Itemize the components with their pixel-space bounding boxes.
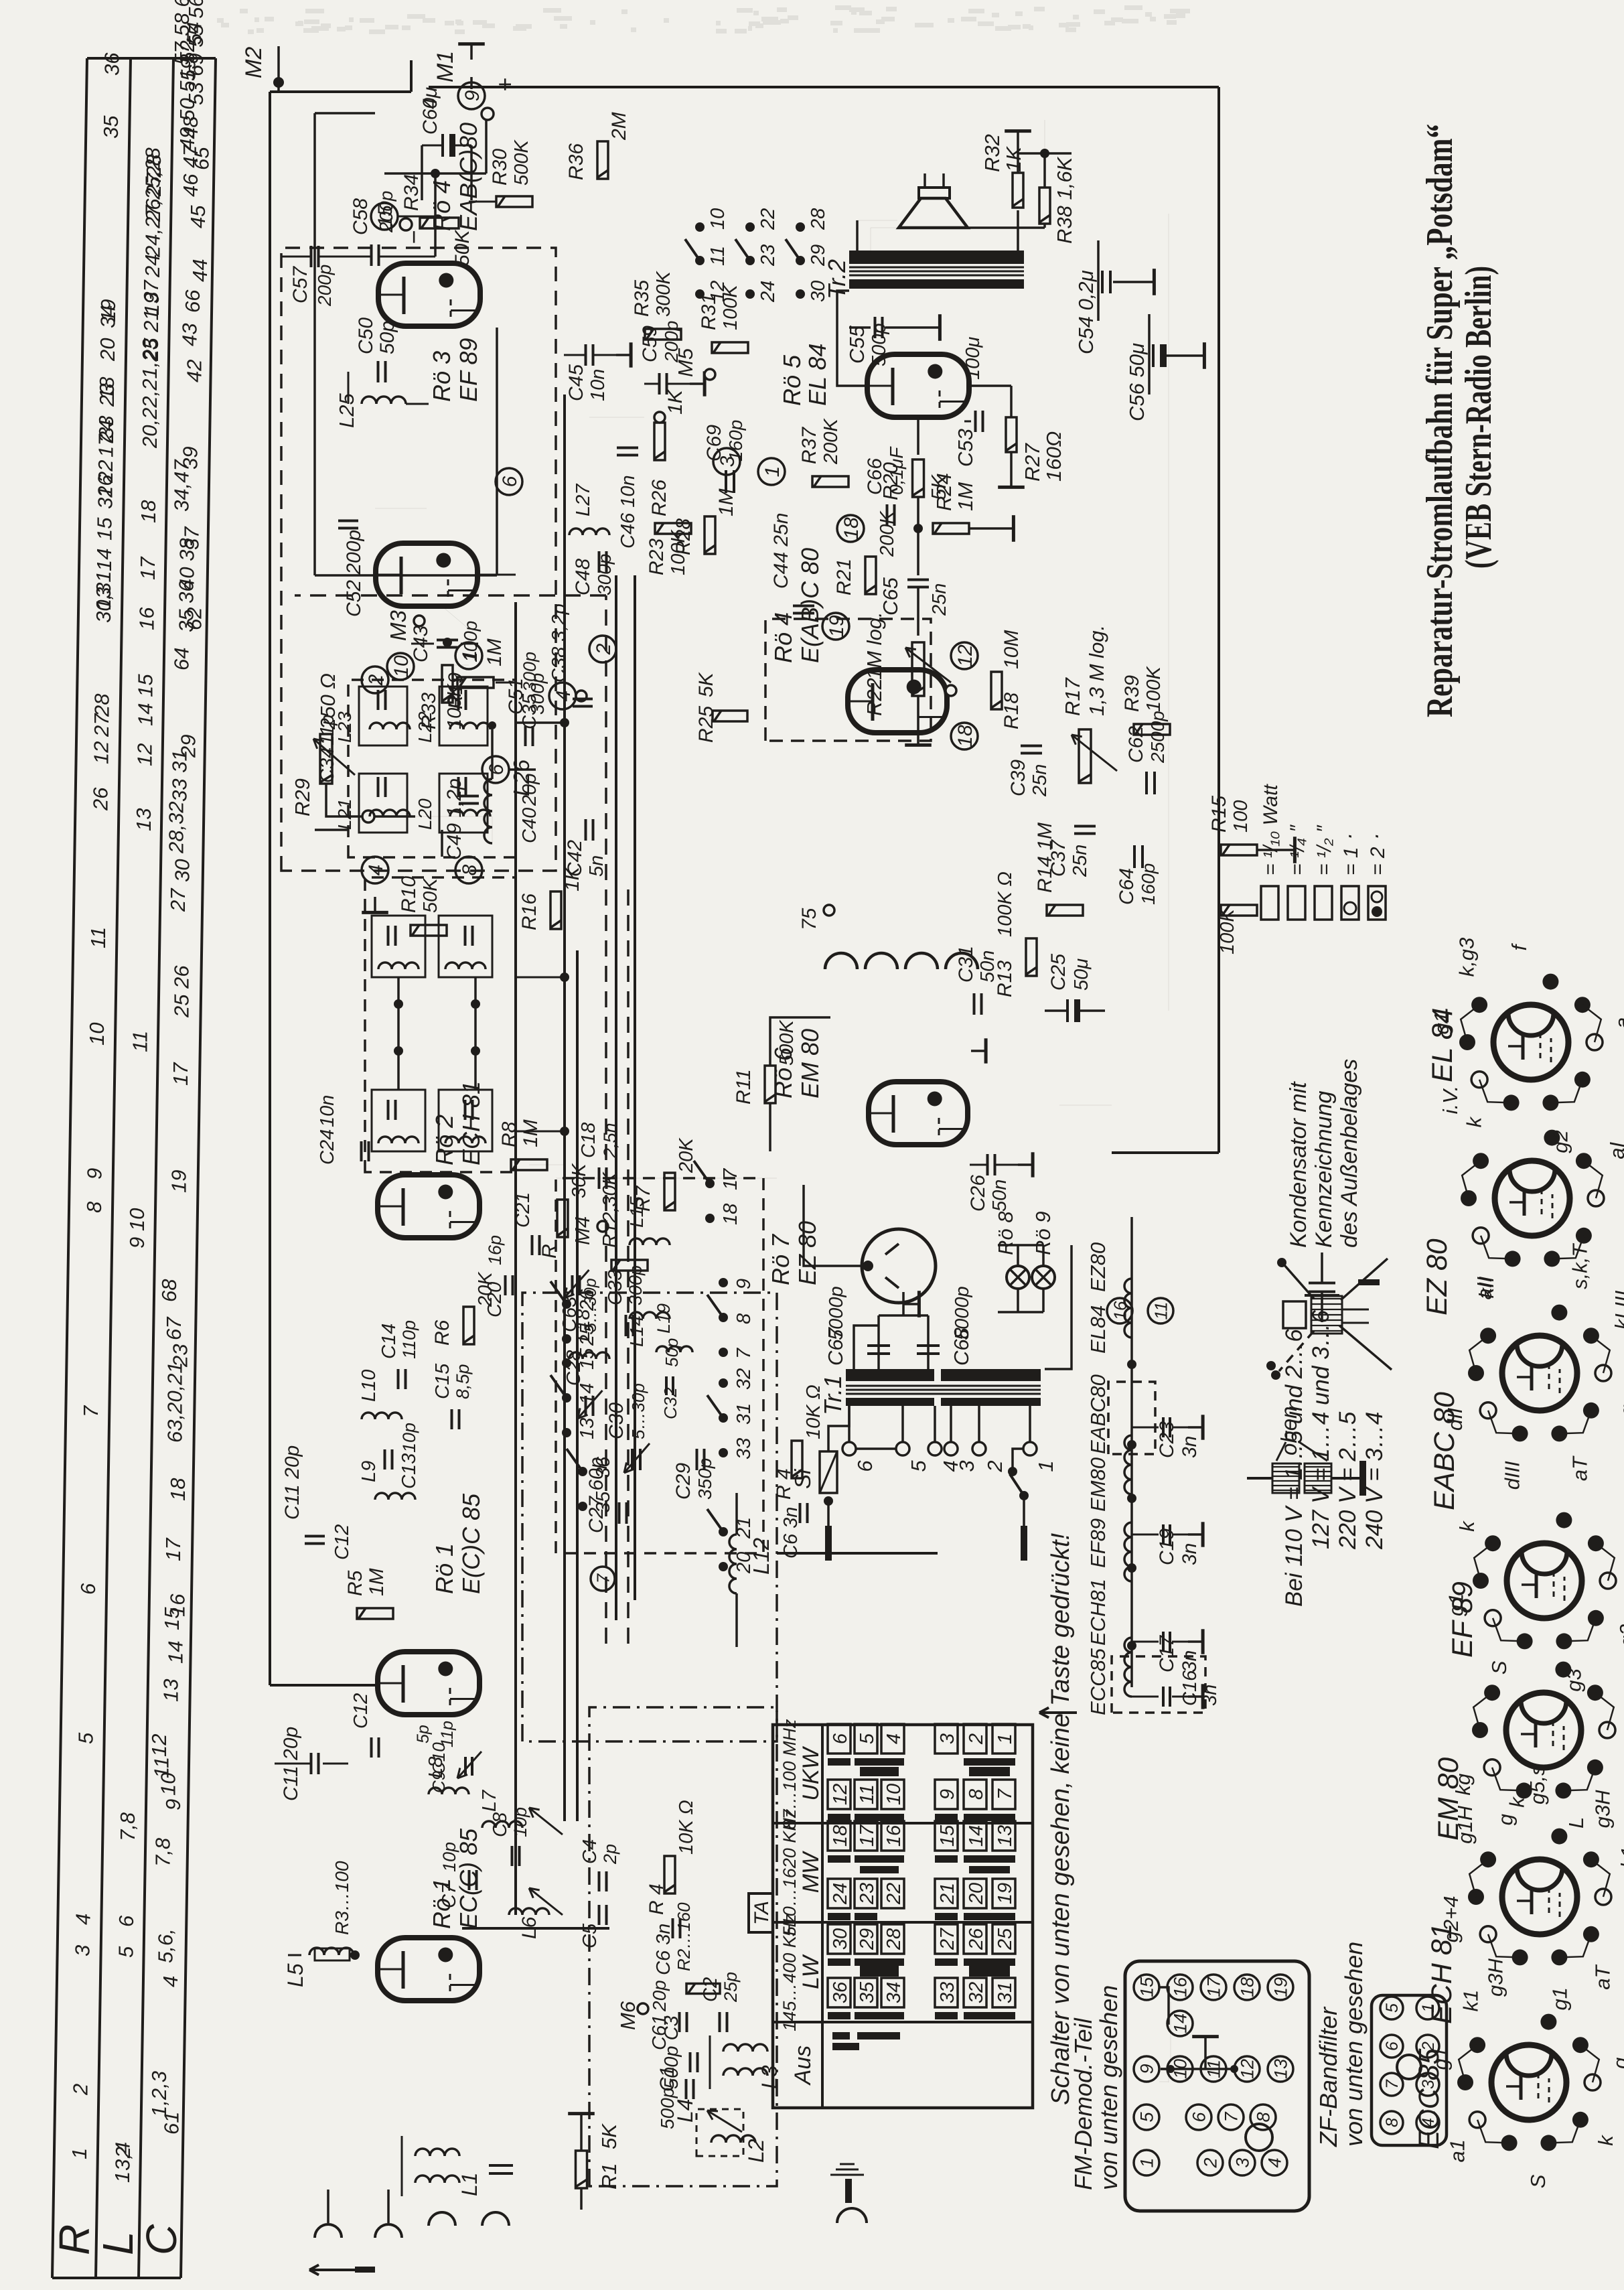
svg-text:17: 17 <box>136 556 159 580</box>
svg-text:R21: R21 <box>833 559 855 595</box>
svg-text:6: 6 <box>499 476 521 487</box>
svg-text:3: 3 <box>1233 2157 1253 2167</box>
svg-text:9: 9 <box>733 1279 755 1289</box>
svg-text:C59: C59 <box>639 326 661 362</box>
svg-text:s,k,T: s,k,T <box>1568 1243 1591 1289</box>
svg-text:14: 14 <box>1171 2013 1191 2033</box>
svg-text:4: 4 <box>71 1914 94 1925</box>
svg-text:11: 11 <box>129 1031 152 1052</box>
svg-text:25: 25 <box>994 1928 1016 1950</box>
svg-text:24: 24 <box>757 281 779 303</box>
svg-text:33: 33 <box>94 416 118 439</box>
svg-text:1K: 1K <box>664 388 686 415</box>
svg-text:EF 89: EF 89 <box>1447 1581 1479 1658</box>
svg-text:Rö 3: Rö 3 <box>428 351 455 402</box>
svg-text:Aus: Aus <box>790 2046 816 2086</box>
svg-text:12: 12 <box>954 644 976 667</box>
svg-text:160p: 160p <box>725 420 746 461</box>
svg-text:5n: 5n <box>586 855 607 877</box>
svg-text:ECH 81: ECH 81 <box>457 1081 485 1165</box>
svg-text:5…30p: 5…30p <box>628 1383 648 1439</box>
svg-text:6: 6 <box>830 1733 851 1744</box>
svg-text:R 4: R 4 <box>646 1883 668 1915</box>
svg-text:11p: 11p <box>438 1721 457 1747</box>
svg-text:oben: oben <box>1276 1407 1301 1455</box>
svg-text:33: 33 <box>937 1982 958 2003</box>
svg-text:8: 8 <box>733 1313 755 1324</box>
svg-text:2500p: 2500p <box>1147 711 1168 764</box>
svg-text:TA: TA <box>751 1901 773 1925</box>
svg-text:500K: 500K <box>511 139 532 186</box>
svg-text:64: 64 <box>170 648 194 670</box>
svg-text:34: 34 <box>96 305 120 328</box>
svg-text:EABC80: EABC80 <box>1086 1374 1110 1454</box>
svg-text:R: R <box>50 2224 98 2255</box>
svg-text:M4: M4 <box>571 1216 594 1245</box>
svg-text:32: 32 <box>93 486 117 509</box>
svg-text:3n: 3n <box>1199 1685 1221 1706</box>
svg-text:(VEB Stern-Radio Berlin): (VEB Stern-Radio Berlin) <box>1458 266 1499 569</box>
svg-text:18: 18 <box>137 500 160 523</box>
svg-text:Kondensator mit: Kondensator mit <box>1286 1081 1311 1248</box>
svg-text:110p: 110p <box>399 1320 419 1359</box>
svg-text:3,4: 3,4 <box>111 2142 135 2171</box>
svg-text:15: 15 <box>93 517 117 541</box>
svg-text:M2: M2 <box>241 47 267 78</box>
svg-text:14 15: 14 15 <box>133 674 157 726</box>
svg-text:C19: C19 <box>1156 1528 1178 1565</box>
svg-text:6: 6 <box>115 1915 138 1927</box>
svg-text:10n: 10n <box>587 369 609 401</box>
svg-text:a: a <box>1611 1017 1624 1029</box>
svg-text:35: 35 <box>99 115 123 139</box>
svg-text:5…30p: 5…30p <box>581 1278 600 1332</box>
svg-text:20K: 20K <box>676 1137 697 1173</box>
svg-text:50K: 50K <box>420 877 441 913</box>
svg-text:M3: M3 <box>386 610 411 641</box>
svg-text:39: 39 <box>178 447 202 470</box>
svg-text:k1: k1 <box>1459 1990 1482 2012</box>
svg-text:25p: 25p <box>721 1972 741 2003</box>
svg-text:5: 5 <box>74 1732 98 1744</box>
svg-text:R10: R10 <box>398 876 420 913</box>
svg-text:S: S <box>1487 1660 1511 1674</box>
svg-text:11: 11 <box>857 1784 878 1804</box>
svg-text:13: 13 <box>1271 2059 1291 2079</box>
svg-text:R27: R27 <box>1021 442 1044 482</box>
svg-text:22: 22 <box>883 1883 905 1905</box>
svg-text:g2+4: g2+4 <box>1439 1895 1463 1942</box>
svg-text:1M: 1M <box>366 1568 388 1596</box>
svg-text:300p: 300p <box>520 652 540 692</box>
svg-text:14: 14 <box>577 1383 598 1405</box>
svg-text:C34: C34 <box>317 747 338 783</box>
svg-text:50p: 50p <box>662 1338 682 1367</box>
svg-text:EAB(C)80: EAB(C)80 <box>455 123 482 231</box>
svg-text:0,1μF: 0,1μF <box>886 446 907 495</box>
svg-text:26: 26 <box>966 1928 987 1950</box>
svg-text:2: 2 <box>966 1733 987 1745</box>
svg-text:44: 44 <box>188 259 212 282</box>
svg-text:62: 62 <box>183 607 206 630</box>
svg-text:19: 19 <box>994 1883 1016 1904</box>
svg-text:17: 17 <box>169 1062 192 1086</box>
svg-text:17: 17 <box>1204 1977 1224 1997</box>
svg-text:R11: R11 <box>733 1069 755 1104</box>
svg-text:18: 18 <box>1238 1977 1258 1997</box>
svg-text:6: 6 <box>853 1460 877 1472</box>
svg-text:R32: R32 <box>980 134 1004 172</box>
svg-text:L20: L20 <box>415 798 435 830</box>
svg-text:L10: L10 <box>358 1370 380 1402</box>
svg-text:13: 13 <box>994 1825 1016 1847</box>
svg-text:10: 10 <box>85 1023 108 1046</box>
svg-text:13: 13 <box>159 1679 183 1702</box>
svg-text:k,g3: k,g3 <box>1455 938 1478 977</box>
svg-text:5p: 5p <box>414 1725 433 1743</box>
svg-text:k: k <box>1462 1116 1485 1127</box>
svg-text:g2: g2 <box>1549 1130 1572 1153</box>
svg-text:R26: R26 <box>648 480 670 516</box>
svg-text:C55: C55 <box>845 325 869 364</box>
svg-text:R39: R39 <box>1121 675 1143 712</box>
svg-text:12: 12 <box>830 1784 851 1805</box>
svg-text:23: 23 <box>168 1344 192 1368</box>
svg-text:160Ω: 160Ω <box>1042 431 1065 482</box>
svg-text:20: 20 <box>96 338 119 362</box>
svg-text:37: 37 <box>180 526 204 550</box>
svg-text:21: 21 <box>937 1883 958 1905</box>
svg-text:S: S <box>1526 2174 1550 2188</box>
svg-text:28: 28 <box>90 693 114 717</box>
svg-text:12: 12 <box>1238 2059 1258 2079</box>
svg-text:g: g <box>1494 1814 1518 1825</box>
svg-text:R: R <box>538 1244 561 1259</box>
svg-text:5000p: 5000p <box>826 1286 847 1340</box>
svg-text:16p: 16p <box>485 1235 505 1265</box>
svg-text:35: 35 <box>593 1491 614 1513</box>
svg-text:66: 66 <box>181 289 204 313</box>
svg-text:k: k <box>1594 2135 1617 2146</box>
svg-text:22: 22 <box>757 208 779 230</box>
svg-text:E(C)C 85: E(C)C 85 <box>457 1493 485 1594</box>
svg-text:50n: 50n <box>977 950 999 983</box>
svg-text:C39: C39 <box>1007 760 1029 796</box>
svg-text:9 10: 9 10 <box>125 1208 149 1248</box>
svg-text:dIII: dIII <box>1500 1461 1524 1490</box>
svg-text:30K: 30K <box>569 1163 590 1198</box>
svg-text:R18: R18 <box>1001 693 1023 729</box>
svg-text:16: 16 <box>883 1824 905 1847</box>
svg-text:C12: C12 <box>350 1693 372 1729</box>
svg-text:Bei 110 V = 1…5 und 2…6: Bei 110 V = 1…5 und 2…6 <box>1281 1329 1307 1607</box>
svg-text:42: 42 <box>182 360 206 382</box>
svg-text:28: 28 <box>808 208 829 230</box>
svg-text:63,20,21: 63,20,21 <box>163 1362 187 1443</box>
svg-text:R8: R8 <box>498 1121 520 1147</box>
svg-text:R35: R35 <box>631 280 653 317</box>
svg-text:C52 200p: C52 200p <box>343 530 365 617</box>
svg-text:16: 16 <box>1171 1977 1191 1997</box>
svg-text:100K: 100K <box>720 284 741 330</box>
svg-text:17: 17 <box>857 1824 878 1847</box>
svg-text:C31: C31 <box>955 946 977 983</box>
svg-text:35: 35 <box>857 1981 878 2003</box>
svg-text:L5: L5 <box>283 1963 307 1987</box>
svg-text:10: 10 <box>883 1784 905 1805</box>
svg-text:18: 18 <box>166 1478 190 1501</box>
svg-text:g2: g2 <box>1615 1624 1624 1647</box>
svg-text:2M: 2M <box>608 112 630 141</box>
svg-text:1M: 1M <box>954 482 977 511</box>
svg-text:100μ: 100μ <box>962 337 984 380</box>
svg-text:7: 7 <box>593 1573 613 1583</box>
svg-text:36: 36 <box>593 1456 614 1478</box>
svg-text:10: 10 <box>390 655 413 678</box>
svg-text:kg: kg <box>1451 1774 1475 1796</box>
svg-text:65: 65 <box>190 147 213 170</box>
svg-text:14: 14 <box>163 1641 187 1664</box>
svg-text:R12,30K: R12,30K <box>599 1171 621 1248</box>
svg-text:C38 3,2p: C38 3,2p <box>548 603 570 683</box>
svg-text:L: L <box>1564 1817 1588 1829</box>
svg-text:100: 100 <box>1230 800 1252 833</box>
svg-text:C48: C48 <box>572 559 594 595</box>
svg-text:33: 33 <box>733 1438 755 1459</box>
svg-text:3: 3 <box>71 1945 94 1956</box>
svg-text:200p: 200p <box>376 191 396 233</box>
svg-text:8: 8 <box>1383 2118 1402 2127</box>
svg-text:18: 18 <box>830 1825 851 1847</box>
svg-text:7: 7 <box>1383 2079 1402 2089</box>
svg-text:6: 6 <box>1383 2042 1402 2051</box>
svg-text:300K: 300K <box>653 271 674 317</box>
svg-text:FM-Demod.-Teil: FM-Demod.-Teil <box>1069 2017 1097 2190</box>
svg-text:18: 18 <box>954 725 976 747</box>
svg-text:C65: C65 <box>879 577 902 616</box>
svg-text:Rö 2: Rö 2 <box>431 1115 458 1165</box>
svg-text:29: 29 <box>857 1928 878 1950</box>
svg-text:87…100 MHz: 87…100 MHz <box>780 1719 800 1830</box>
svg-text:100p: 100p <box>460 621 481 662</box>
svg-text:7: 7 <box>994 1788 1016 1800</box>
svg-text:8: 8 <box>82 1201 106 1213</box>
svg-text:C6 3n: C6 3n <box>653 1924 674 1975</box>
svg-text:20: 20 <box>966 1883 987 1905</box>
svg-text:g: g <box>1609 2058 1624 2069</box>
svg-text:g1: g1 <box>1548 1987 1572 2010</box>
svg-text:20: 20 <box>733 1552 755 1574</box>
svg-text:17: 17 <box>161 1537 185 1561</box>
svg-text:1: 1 <box>1034 1460 1057 1472</box>
svg-text:4: 4 <box>1265 2157 1285 2167</box>
svg-text:5K: 5K <box>597 2123 621 2149</box>
svg-text:C6 3n: C6 3n <box>780 1507 802 1559</box>
svg-text:32: 32 <box>966 1982 987 2003</box>
svg-text:R6: R6 <box>431 1319 453 1346</box>
svg-text:34: 34 <box>883 1982 905 2003</box>
svg-text:15: 15 <box>577 1348 598 1370</box>
svg-text:25n: 25n <box>1069 845 1091 877</box>
svg-text:7: 7 <box>79 1405 102 1417</box>
svg-text:R23: R23 <box>646 539 668 575</box>
svg-text:L7: L7 <box>479 1789 500 1812</box>
svg-text:3: 3 <box>937 1733 958 1744</box>
svg-text:19: 19 <box>1271 1977 1291 1997</box>
svg-text:10: 10 <box>707 208 729 230</box>
svg-text:36: 36 <box>830 1981 851 2003</box>
svg-text:2: 2 <box>983 1460 1007 1472</box>
svg-text:ZF-Bandfilter: ZF-Bandfilter <box>1315 2006 1342 2147</box>
svg-text:50n: 50n <box>989 1179 1011 1212</box>
svg-text:L27: L27 <box>573 483 594 516</box>
svg-text:27: 27 <box>937 1927 958 1950</box>
svg-text:R30: R30 <box>489 149 511 186</box>
svg-text:5K: 5K <box>695 671 717 697</box>
svg-text:67: 67 <box>162 1316 186 1340</box>
svg-text:Kennzeichnung: Kennzeichnung <box>1311 1090 1337 1248</box>
svg-text:R25: R25 <box>695 706 717 743</box>
svg-text:4: 4 <box>883 1733 905 1744</box>
svg-text:8: 8 <box>459 864 481 875</box>
svg-text:500p C3: 500p C3 <box>661 2015 682 2089</box>
svg-text:C49 1,2p: C49 1,2p <box>443 778 465 860</box>
svg-text:100K: 100K <box>668 529 689 575</box>
svg-text:C56 50μ: C56 50μ <box>1125 343 1149 421</box>
svg-text:36: 36 <box>100 52 124 76</box>
svg-text:L25: L25 <box>335 393 358 428</box>
svg-text:3: 3 <box>717 455 739 467</box>
svg-text:i.V.: i.V. <box>1438 1086 1462 1115</box>
svg-text:C15: C15 <box>432 1363 453 1399</box>
svg-text:10K Ω: 10K Ω <box>676 1800 697 1855</box>
svg-text:5: 5 <box>857 1733 878 1744</box>
svg-text:9: 9 <box>161 1799 185 1810</box>
svg-text:45: 45 <box>186 205 210 228</box>
svg-text:EM 80: EM 80 <box>796 1029 824 1098</box>
svg-text:30: 30 <box>830 1928 851 1950</box>
svg-text:EM 80: EM 80 <box>1432 1758 1465 1841</box>
svg-text:4: 4 <box>365 865 387 876</box>
svg-text:11: 11 <box>150 1757 173 1778</box>
svg-text:68: 68 <box>157 1279 181 1302</box>
svg-text:3n: 3n <box>1179 1650 1201 1672</box>
svg-text:C26: C26 <box>967 1175 989 1212</box>
svg-text:LW: LW <box>798 1954 824 1989</box>
svg-text:8: 8 <box>1254 2112 1274 2122</box>
svg-text:9: 9 <box>461 90 484 101</box>
svg-text:2: 2 <box>365 674 387 686</box>
svg-text:5,6,: 5,6, <box>153 1928 177 1963</box>
svg-text:5: 5 <box>115 1946 138 1958</box>
svg-text:160p: 160p <box>1138 863 1159 905</box>
svg-text:aT: aT <box>1568 1455 1591 1481</box>
svg-text:EM80: EM80 <box>1086 1457 1110 1512</box>
svg-text:R17: R17 <box>1061 676 1084 716</box>
svg-text:54: 54 <box>182 22 206 45</box>
svg-text:f: f <box>1507 942 1531 950</box>
svg-text:C45: C45 <box>565 364 587 401</box>
svg-text:10K Ω: 10K Ω <box>803 1384 824 1439</box>
svg-text:5000p: 5000p <box>952 1286 973 1340</box>
svg-text:6: 6 <box>1189 2112 1209 2123</box>
svg-text:L2: L2 <box>744 2139 768 2163</box>
svg-text:C13: C13 <box>398 1453 420 1489</box>
svg-text:200K: 200K <box>820 418 842 465</box>
svg-text:9: 9 <box>83 1168 106 1179</box>
svg-text:17: 17 <box>720 1167 741 1190</box>
svg-text:k1: k1 <box>1617 1847 1624 1869</box>
svg-text:aI: aI <box>1605 1141 1624 1159</box>
svg-text:7: 7 <box>1222 2112 1242 2123</box>
svg-text:9: 9 <box>937 1789 958 1800</box>
svg-text:L: L <box>94 2231 142 2255</box>
svg-text:10M: 10M <box>1001 630 1023 669</box>
svg-text:Rö 7: Rö 7 <box>767 1233 794 1285</box>
svg-text:MW: MW <box>798 1851 824 1893</box>
svg-text:13: 13 <box>132 808 155 831</box>
svg-text:g3: g3 <box>1562 1668 1586 1691</box>
svg-text:18: 18 <box>840 517 863 540</box>
svg-text:50μ: 50μ <box>1071 958 1092 991</box>
svg-text:75: 75 <box>798 908 820 930</box>
svg-text:des Außenbelages: des Außenbelages <box>1337 1059 1362 1248</box>
svg-text:12: 12 <box>90 741 113 764</box>
svg-text:Reparatur-Stromlaufbahn für Su: Reparatur-Stromlaufbahn für Super „Potsd… <box>1419 124 1461 717</box>
svg-text:R2…160: R2…160 <box>674 1902 694 1971</box>
svg-text:9: 9 <box>1137 2064 1157 2074</box>
svg-text:4μ: 4μ <box>419 87 441 109</box>
svg-text:UKW: UKW <box>798 1745 824 1800</box>
svg-text:16: 16 <box>135 607 159 630</box>
svg-text:= 1 ‧: = 1 ‧ <box>1340 835 1362 875</box>
svg-text:127 V = 1…4 und 3…6: 127 V = 1…4 und 3…6 <box>1308 1309 1334 1549</box>
svg-text:1: 1 <box>68 2148 91 2159</box>
svg-text:11: 11 <box>1151 1302 1171 1320</box>
svg-text:C44 25n: C44 25n <box>770 513 792 589</box>
svg-text:ECC85: ECC85 <box>1086 1648 1110 1715</box>
svg-text:15: 15 <box>937 1824 958 1847</box>
svg-text:25n: 25n <box>1029 764 1051 797</box>
svg-text:1K: 1K <box>1002 146 1025 172</box>
svg-text:10p: 10p <box>439 1842 459 1872</box>
svg-text:dII: dII <box>1443 1407 1467 1431</box>
svg-text:R24: R24 <box>932 473 956 511</box>
svg-text:C46 10n: C46 10n <box>617 475 639 549</box>
svg-text:a: a <box>1617 1679 1624 1691</box>
svg-text:7: 7 <box>733 1347 755 1359</box>
svg-text:C23: C23 <box>1156 1421 1178 1458</box>
svg-text:24: 24 <box>830 1883 851 1905</box>
svg-text:R34: R34 <box>400 174 423 211</box>
svg-text:L9: L9 <box>358 1461 380 1482</box>
svg-text:28,32: 28,32 <box>164 801 188 854</box>
svg-text:EZ 80: EZ 80 <box>1421 1238 1453 1315</box>
svg-text:a: a <box>1621 1541 1624 1552</box>
svg-text:30,31: 30,31 <box>92 571 115 623</box>
svg-text:19: 19 <box>826 615 848 638</box>
svg-text:23: 23 <box>95 384 119 407</box>
svg-text:4: 4 <box>159 1976 182 1987</box>
svg-text:C32: C32 <box>660 1387 680 1419</box>
svg-text:3: 3 <box>955 1460 978 1472</box>
svg-text:g1: g1 <box>1445 1593 1468 1616</box>
svg-text:C54 0,2μ: C54 0,2μ <box>1074 270 1098 354</box>
svg-text:6: 6 <box>486 764 508 775</box>
svg-text:18: 18 <box>720 1204 741 1225</box>
svg-text:C12: C12 <box>331 1524 353 1560</box>
svg-text:Rö 1: Rö 1 <box>431 1543 458 1594</box>
